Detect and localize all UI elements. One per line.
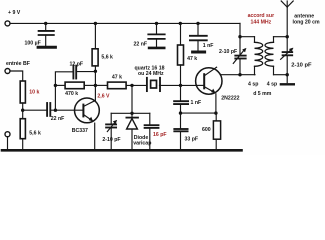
- svg-text:12 pF: 12 pF: [70, 61, 84, 67]
- ground bar under 22nF: [149, 47, 164, 50]
- node tank bottom: [238, 73, 241, 76]
- resistor 600: [213, 121, 220, 139]
- node 12pF right: [94, 70, 97, 73]
- wire quartz to base: [160, 84, 197, 86]
- resistor 5.6k collector load: [92, 49, 98, 66]
- transistor 2N2222: [196, 67, 222, 113]
- node 47k rail: [179, 22, 182, 25]
- wire varicap horizontal: [111, 112, 150, 114]
- wire coil2 bottom to ground: [274, 74, 288, 76]
- terminal entree BF: [5, 69, 10, 74]
- svg-text:2-10 pF: 2-10 pF: [219, 49, 237, 55]
- svg-text:33 pF: 33 pF: [185, 137, 199, 143]
- node collector BC337: [94, 84, 97, 87]
- wire 470k left lead: [55, 84, 65, 86]
- wire 5.6k collector leads: [94, 23, 96, 101]
- svg-text:1 nF: 1 nF: [191, 100, 202, 106]
- wire 5.6k to rail: [22, 139, 24, 150]
- svg-text:varicap: varicap: [133, 140, 151, 146]
- svg-text:2,6 V: 2,6 V: [97, 93, 110, 99]
- capacitor 33pF: [174, 113, 187, 149]
- wire node to 22nF: [23, 109, 48, 111]
- capacitor 100uF: [39, 23, 54, 45]
- wire ground terminal: [7, 137, 9, 150]
- wire 10k to node: [22, 103, 24, 119]
- wire oscillator line: [95, 84, 107, 86]
- svg-text:47 k: 47 k: [187, 56, 197, 62]
- node varicap wire: [130, 112, 133, 115]
- terminal +9V: [5, 21, 10, 26]
- resistor 5.6k lower left: [20, 119, 25, 139]
- trimmer 2-10pF tank: [233, 48, 246, 74]
- diode varicap: [126, 113, 138, 149]
- wire emitter horizontal: [181, 112, 216, 114]
- trimmer 2-10pF antenna: [281, 37, 293, 75]
- svg-text:144 MHz: 144 MHz: [251, 19, 272, 25]
- svg-text:BC337: BC337: [72, 128, 88, 134]
- terminal ground: [5, 132, 10, 137]
- svg-text:long 20 cm: long 20 cm: [293, 19, 320, 25]
- svg-text:2-10 pF: 2-10 pF: [102, 137, 120, 143]
- node 33pF top: [179, 111, 182, 114]
- inductor coil2 4sp: [265, 37, 274, 75]
- capacitor 1nF feedback: [174, 85, 188, 113]
- svg-text:22 nF: 22 nF: [134, 41, 148, 47]
- node feedback bottom: [54, 109, 57, 112]
- svg-text:4 sp: 4 sp: [267, 81, 277, 87]
- node antenna line bottom: [286, 73, 289, 76]
- ground rail: [2, 149, 242, 152]
- transistor BC337: [75, 98, 100, 149]
- svg-text:entrée BF: entrée BF: [6, 61, 30, 67]
- trimmer 2-10pF varicap: [106, 113, 117, 149]
- wire input: [10, 71, 23, 81]
- svg-text:accord sur: accord sur: [248, 13, 275, 19]
- svg-text:5,6 k: 5,6 k: [29, 131, 41, 137]
- svg-text:2N2222: 2N2222: [221, 96, 239, 102]
- wire tank top to coil1: [240, 36, 255, 38]
- svg-text:100 µF: 100 µF: [25, 40, 41, 46]
- svg-text:16 pF: 16 pF: [153, 132, 167, 138]
- wire coil2 top to antenna line: [274, 36, 288, 38]
- svg-text:1 nF: 1 nF: [203, 43, 214, 49]
- svg-text:47 k: 47 k: [112, 74, 122, 80]
- node varicap tap: [130, 84, 133, 87]
- wire feedback column: [55, 72, 73, 110]
- svg-text:2-10 pF: 2-10 pF: [291, 63, 312, 69]
- capacitor 1nF decoupling: [190, 23, 207, 50]
- node 1nF rail: [196, 22, 199, 25]
- svg-text:600: 600: [202, 127, 211, 133]
- svg-text:d 5 mm: d 5 mm: [253, 91, 272, 97]
- wire 470k right lead: [84, 84, 95, 86]
- svg-text:470 k: 470 k: [65, 91, 78, 97]
- wire 47k to quartz: [126, 84, 147, 86]
- capacitor 22nF decoupling: [148, 23, 164, 47]
- wire collector to tank: [221, 74, 255, 76]
- wire 22nF to base: [50, 109, 82, 111]
- node 5.6k rail: [94, 22, 97, 25]
- capacitor 16pF: [145, 113, 159, 149]
- node 470k left: [54, 84, 57, 87]
- capacitor 12pF: [73, 66, 76, 79]
- wire 47k vertical leads: [180, 23, 182, 85]
- svg-text:ou 24 MHz: ou 24 MHz: [138, 71, 164, 77]
- resistor 10k: [20, 81, 25, 103]
- node 47k vertical bottom: [179, 84, 182, 87]
- wire rail corner down: [239, 23, 241, 55]
- ground bar antenna: [286, 75, 288, 83]
- inductor coil1 4sp: [255, 37, 263, 75]
- quartz crystal: [147, 78, 160, 91]
- node tank top: [238, 35, 241, 38]
- node emitter: [214, 111, 217, 114]
- node 22nF rail: [155, 22, 158, 25]
- node input divider: [21, 109, 24, 112]
- wire varicap column: [131, 85, 133, 113]
- svg-text:10 k: 10 k: [29, 90, 39, 96]
- node antenna line top: [286, 35, 289, 38]
- wire top rail: [10, 22, 240, 24]
- node 100uF rail: [44, 22, 47, 25]
- ground bar under 1nF: [193, 51, 205, 54]
- svg-text:22 nF: 22 nF: [51, 116, 65, 122]
- svg-text:5,6 k: 5,6 k: [101, 55, 113, 61]
- ground bar under 100uF: [38, 46, 55, 49]
- resistor 470k: [65, 82, 84, 89]
- wire 600 leads: [215, 113, 217, 149]
- resistor 47k horizontal: [108, 82, 127, 89]
- capacitor 22nF coupling: [47, 103, 50, 116]
- wire 12pF right: [77, 71, 96, 73]
- resistor 47k vertical: [178, 45, 184, 65]
- antenna: [281, 1, 293, 37]
- svg-text:4 sp: 4 sp: [248, 81, 258, 87]
- svg-text:+ 9 V: + 9 V: [8, 10, 21, 16]
